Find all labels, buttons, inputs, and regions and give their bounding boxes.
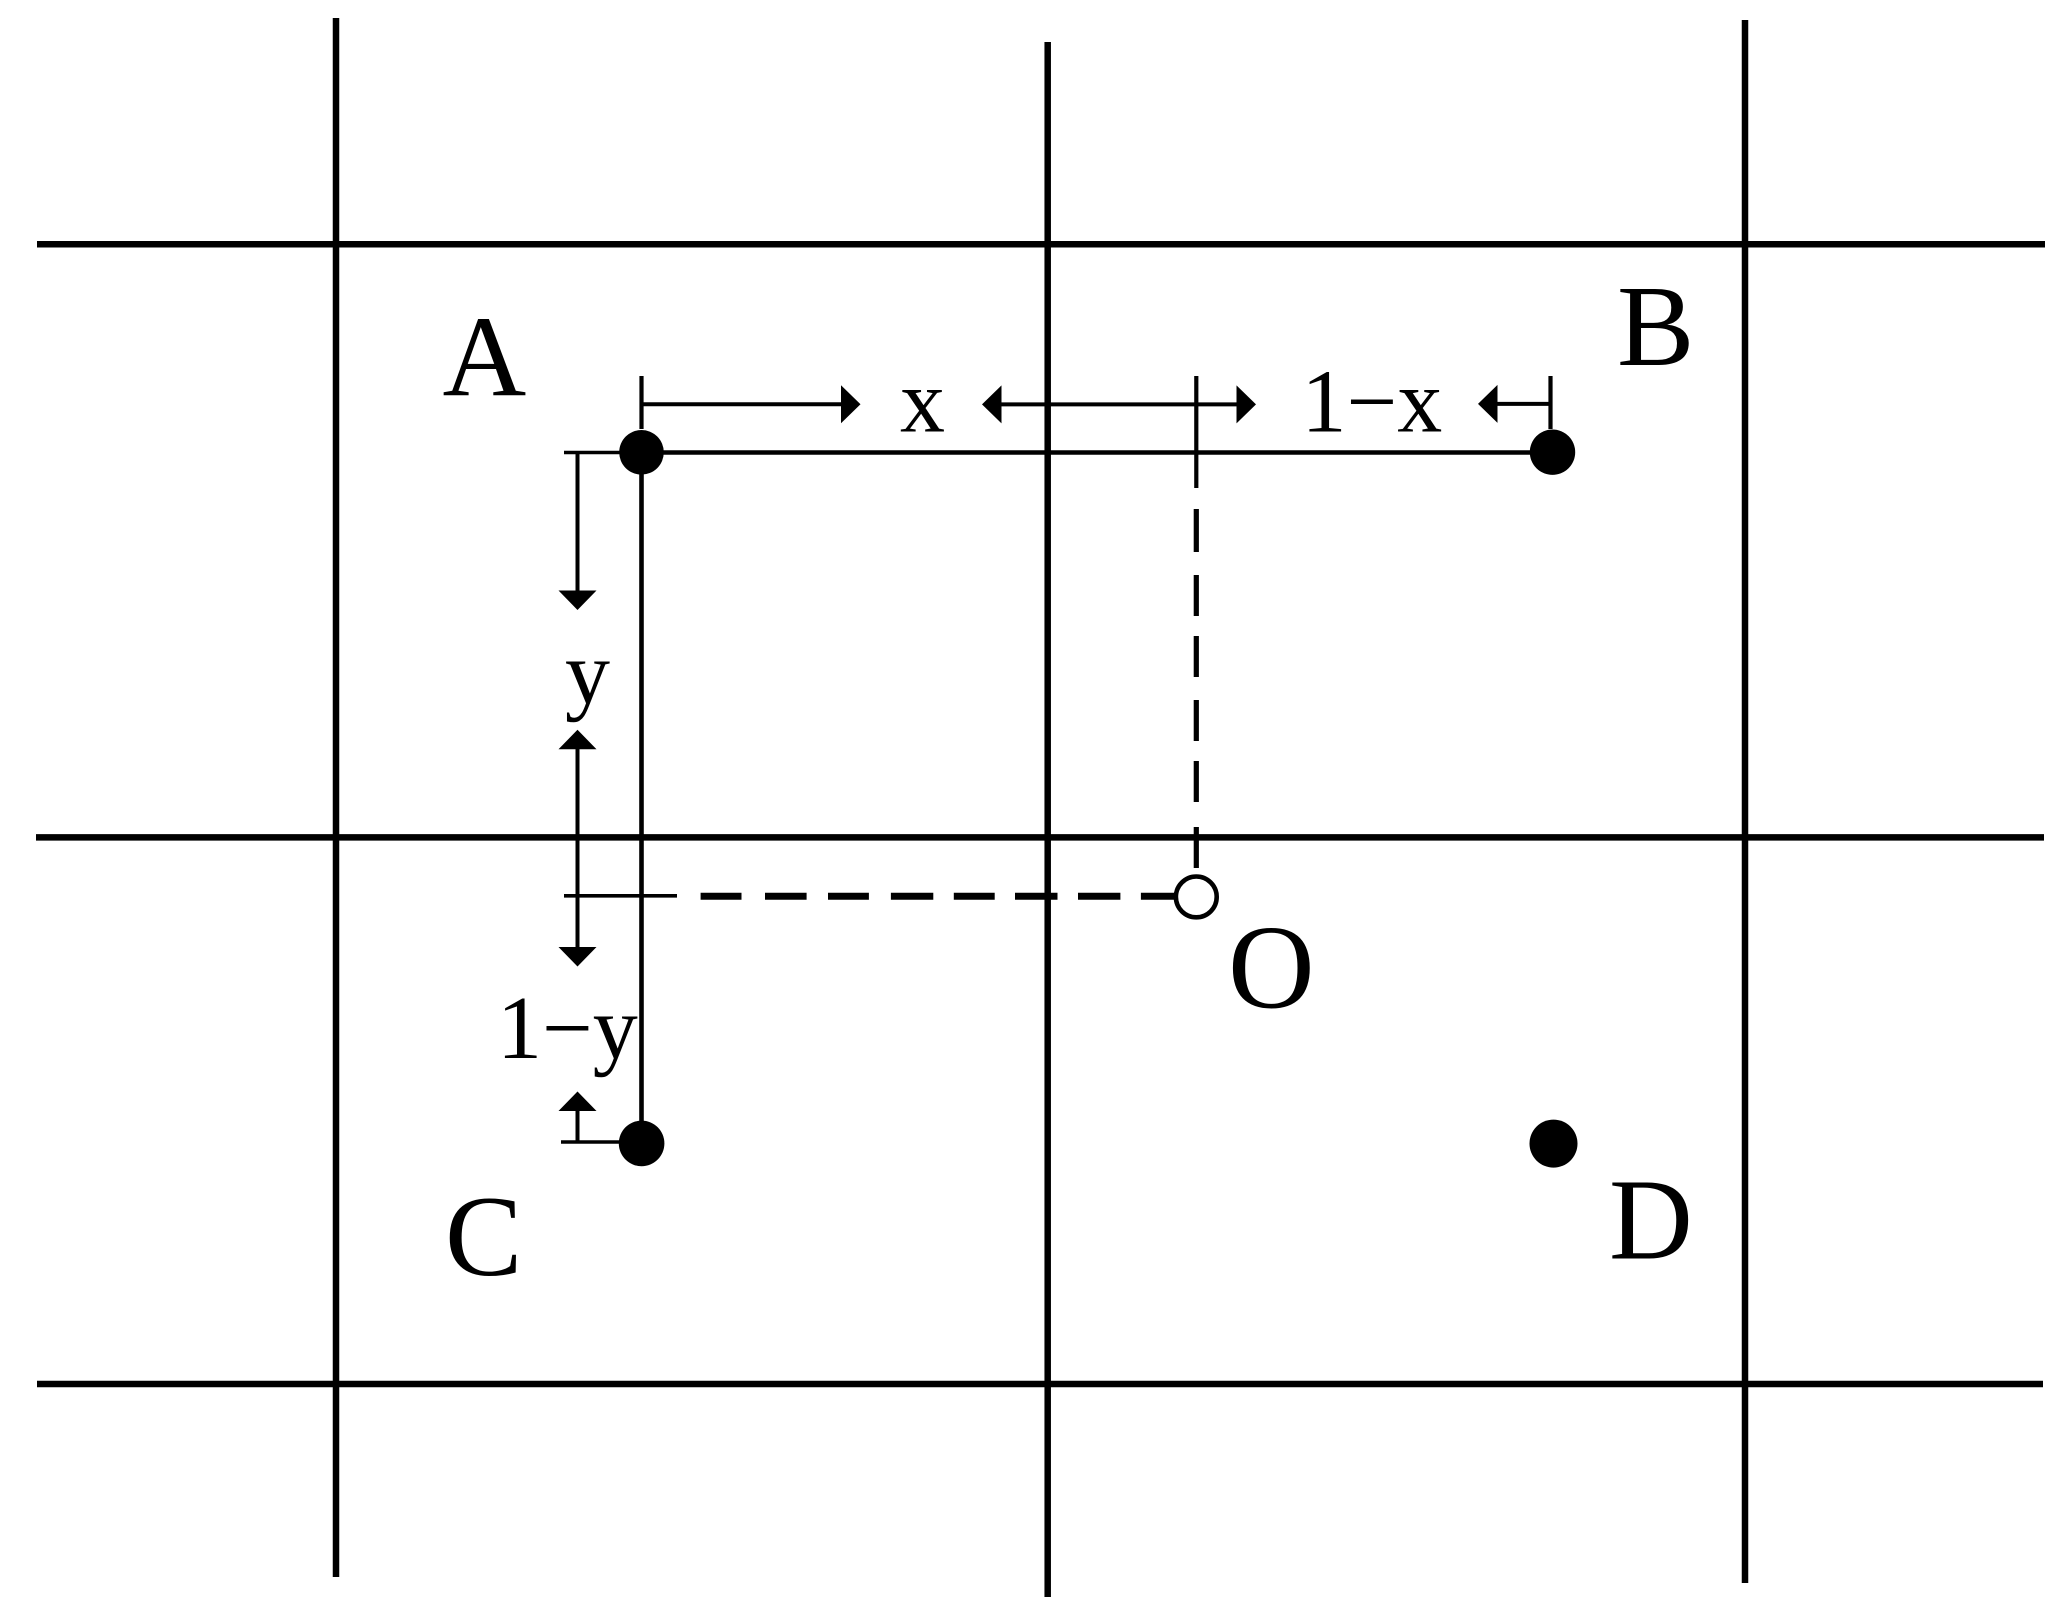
dimension line x with right arrowhead: [642, 402, 843, 406]
extension tick left of A: [564, 451, 642, 455]
svg-text:1−y: 1−y: [497, 979, 638, 1078]
double-headed arrow between x and 1-x: [1000, 402, 1238, 406]
wire segment A-C: [639, 452, 644, 1144]
grid horizontal line bottom: [37, 1381, 2043, 1388]
extension tick above A: [639, 376, 643, 429]
wire segment A-B: [642, 450, 1553, 455]
grid horizontal line top: [37, 241, 2045, 248]
dashed vertical line from O extension: [1194, 509, 1199, 868]
node C dot: [619, 1121, 665, 1167]
extension tick at C level: [561, 1140, 640, 1144]
grid vertical line middle: [1044, 42, 1051, 1597]
node O open circle: [1176, 877, 1217, 918]
grid vertical line right: [1742, 20, 1749, 1583]
extension tick at O level: [564, 894, 677, 898]
svg-text:D: D: [1609, 1156, 1693, 1284]
svg-text:A: A: [443, 294, 527, 422]
svg-text:O: O: [1228, 901, 1315, 1034]
extension tick above O: [1194, 376, 1198, 488]
svg-text:B: B: [1617, 263, 1694, 391]
dimension line y with down arrowhead: [576, 451, 580, 591]
node D dot: [1530, 1120, 1578, 1168]
grid horizontal line middle: [36, 834, 2044, 841]
grid vertical line left: [333, 18, 340, 1577]
svg-text:x: x: [900, 353, 945, 452]
svg-text:C: C: [445, 1173, 522, 1301]
svg-text:1−x: 1−x: [1302, 353, 1443, 452]
left arrowhead into tick above B: [1478, 385, 1498, 423]
node B dot: [1530, 430, 1575, 475]
double-headed arrow between y and 1-y: [576, 749, 580, 949]
extension tick above B: [1548, 376, 1552, 429]
up arrowhead above tick at C level: [559, 1092, 597, 1112]
svg-text:y: y: [565, 624, 610, 723]
dashed horizontal line to O: [701, 893, 1174, 900]
node A dot: [619, 430, 664, 475]
